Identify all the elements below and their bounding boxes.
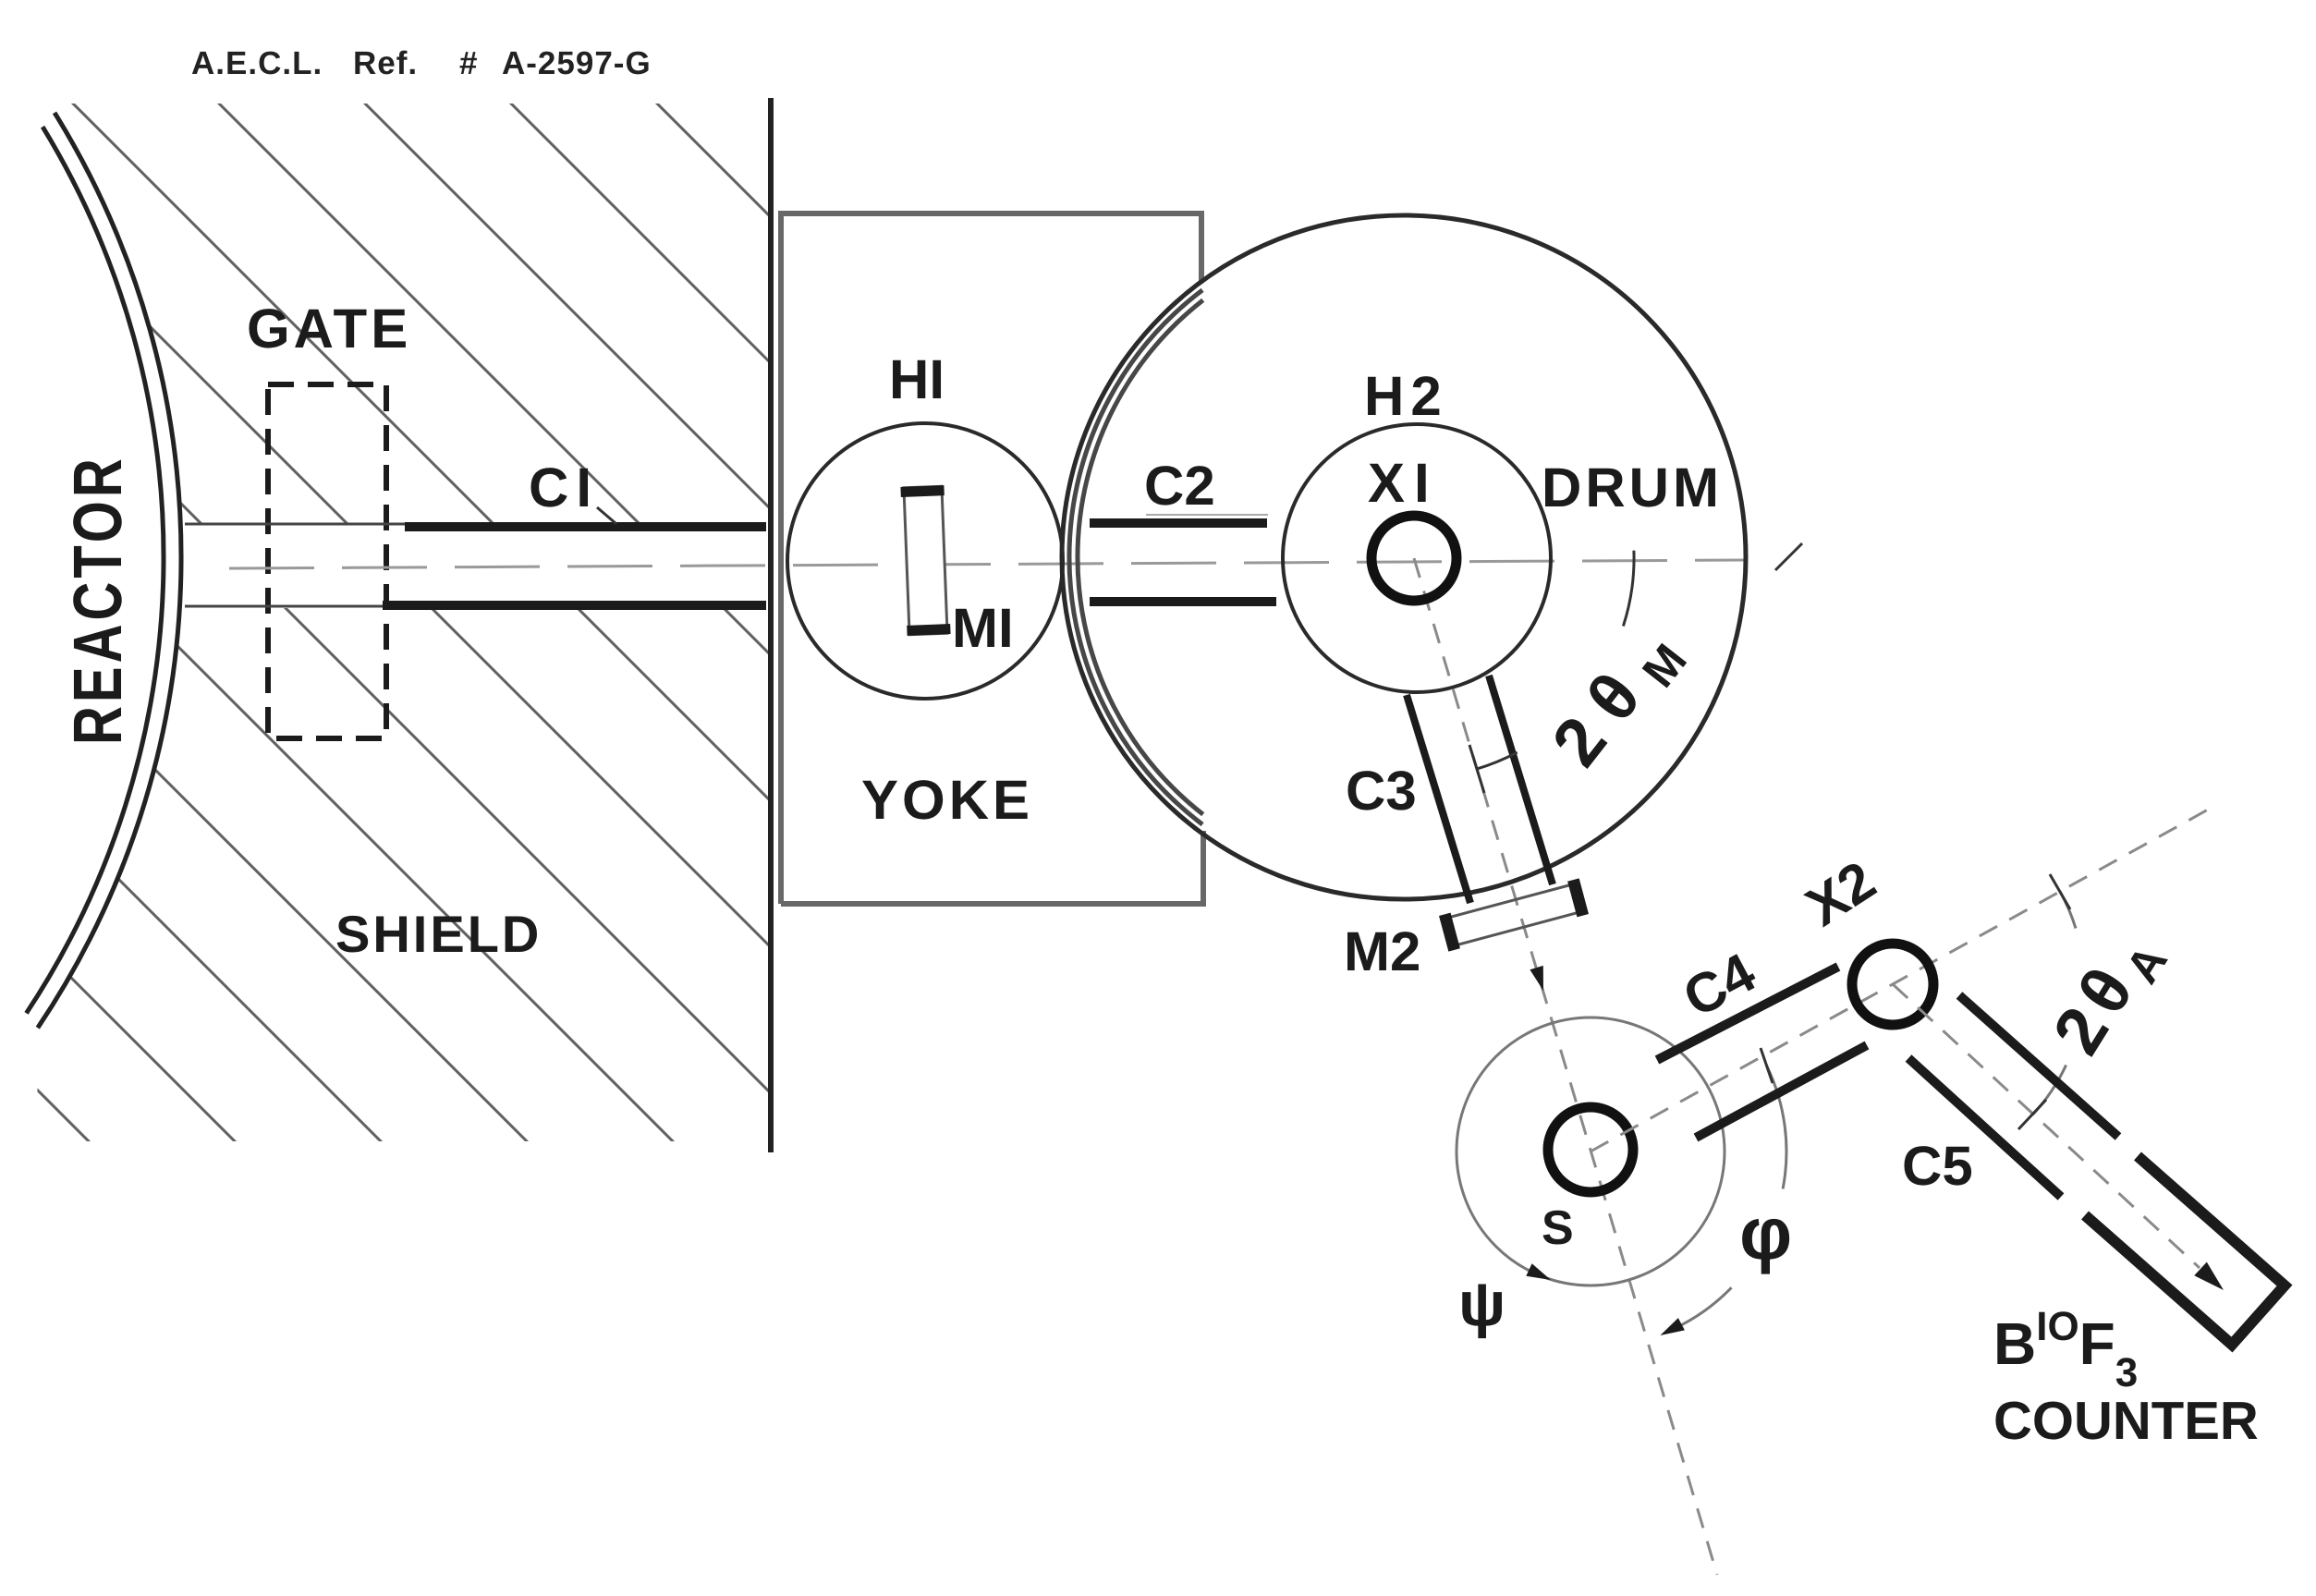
crystal M1: [900, 486, 950, 635]
axis X1: [1371, 516, 1457, 601]
dimension tick on centre line: [1775, 543, 1802, 570]
phi arc arrowhead: [1660, 1318, 1685, 1335]
dimension arc phi segment b: [1676, 1287, 1732, 1327]
beam slot upper edge: [185, 523, 405, 526]
svg-text:C3: C3: [1346, 760, 1417, 822]
beam arrow below M2: [1530, 966, 1543, 991]
svg-text:REACTOR: REACTOR: [59, 455, 136, 745]
label C4: [1674, 941, 1766, 1029]
dimension tick at X2 extension line: [2050, 874, 2070, 909]
svg-text:Ref.: Ref.: [353, 45, 418, 81]
yoke outline: [781, 213, 1203, 904]
svg-text:GATE: GATE: [247, 298, 411, 359]
sample table circle: [1457, 1017, 1725, 1285]
beam arrowhead into counter: [2194, 1262, 2224, 1290]
axis X2: [1852, 944, 1933, 1025]
label X2: [1796, 849, 1886, 938]
label 2thetaM: [1537, 600, 1708, 786]
scattered beam axis X1 to S (dashed): [1414, 558, 1717, 1575]
svg-text:C5: C5: [1902, 1135, 1973, 1197]
svg-text:#: #: [459, 45, 478, 81]
shield face wall line: [768, 98, 774, 1152]
beam centre line (horizontal): [229, 560, 1745, 568]
dimension arc 2thetaM segment b: [1477, 752, 1518, 769]
svg-text:H2: H2: [1364, 365, 1448, 427]
svg-text:DRUM: DRUM: [1542, 457, 1723, 518]
hole H2: [1283, 424, 1551, 692]
sample rotation arrowhead (psi): [1526, 1263, 1551, 1280]
svg-text:ψ: ψ: [1458, 1269, 1505, 1339]
gate dashed outline: [268, 384, 386, 738]
analysed beam axis S to X2 (dashed): [1591, 804, 2218, 1151]
collimator C2 lower plate: [1090, 597, 1276, 606]
dimension tick at C3: [1469, 745, 1484, 793]
reactor wall inner arc: [27, 127, 165, 1013]
B10F3 counter body: [2085, 1156, 2285, 1345]
reactor wall outer arc: [38, 113, 181, 1028]
collimator C2 faint upper line: [1146, 514, 1268, 516]
svg-text:M2: M2: [1344, 920, 1420, 982]
collimator C5 lower plate: [1908, 1058, 2061, 1197]
collimator C3 left plate: [1407, 695, 1470, 903]
beam slot lower edge: [185, 605, 383, 608]
collimator C1 upper plate: [405, 522, 766, 531]
collimator C4 lower plate: [1696, 1045, 1867, 1138]
svg-text:CI: CI: [529, 457, 599, 518]
collimator C4 upper plate: [1657, 967, 1838, 1060]
svg-text:XI: XI: [1368, 452, 1439, 514]
svg-text:φ: φ: [1739, 1192, 1792, 1274]
svg-text:COUNTER: COUNTER: [1993, 1391, 2259, 1451]
svg-text:S: S: [1542, 1201, 1574, 1255]
header reference text: [191, 45, 652, 81]
drum bearing arc 1: [1069, 290, 1202, 824]
hole H1: [787, 423, 1063, 699]
drum outline: [1062, 215, 1746, 899]
monitor crystal M2: [1441, 879, 1586, 951]
sample S crystal: [1548, 1107, 1633, 1192]
label 2thetaA: [2038, 911, 2182, 1072]
collimator C1 lower plate: [383, 601, 766, 610]
dimension arc 2thetaM segment a: [1623, 551, 1634, 627]
collimator C5 upper plate: [1959, 995, 2118, 1137]
collimator C3 right plate: [1489, 676, 1553, 884]
dimension arc 2thetaA segment a: [2060, 892, 2076, 929]
svg-text:C2: C2: [1144, 455, 1215, 517]
svg-text:A.E.C.L.: A.E.C.L.: [191, 45, 323, 81]
collimator C2 upper plate: [1090, 518, 1267, 528]
dimension tick at C5 axis: [2018, 1100, 2046, 1129]
counted beam axis X2 to counter (dashed): [1893, 984, 2200, 1268]
drum bearing arc 2: [1078, 300, 1203, 814]
svg-text:SHIELD: SHIELD: [335, 905, 542, 963]
shield hatching above beam: [0, 0, 1993, 1294]
svg-text:HI: HI: [889, 348, 945, 410]
shield hatching below beam: [0, 0, 1993, 1294]
dimension tick at S-X2 line: [1761, 1048, 1773, 1083]
dimension arc 2thetaA segment b: [2032, 1066, 2066, 1115]
dimension arc phi segment a: [1767, 1066, 1786, 1188]
svg-text:A-2597-G: A-2597-G: [502, 45, 652, 81]
svg-text:MI: MI: [952, 597, 1014, 659]
svg-text:YOKE: YOKE: [861, 769, 1033, 831]
label C1 leader tick: [597, 507, 616, 524]
